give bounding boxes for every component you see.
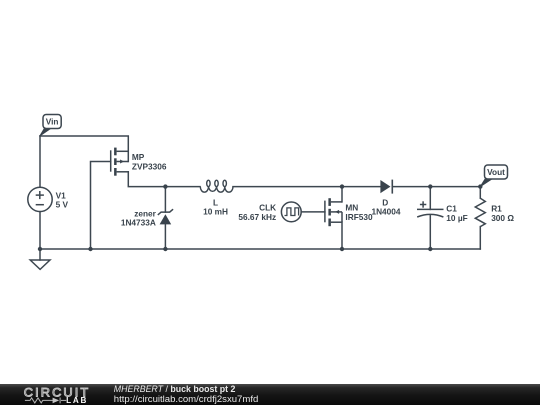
svg-text:IRF530: IRF530 (345, 212, 373, 222)
label zener value (121, 218, 156, 228)
wire ground stem (39, 249, 41, 260)
node Vin flag (40, 115, 61, 136)
inductor L (200, 180, 233, 192)
wire zener bottom stub (164, 224, 166, 249)
wire C1 bottom stub (429, 216, 431, 249)
logo diode symbol (53, 398, 60, 404)
diode D 1N4004 (380, 180, 392, 194)
label L value (203, 207, 228, 217)
footer bar (0, 384, 540, 405)
wire V1 top (39, 136, 41, 187)
label MP name (132, 152, 145, 162)
wire zener top stub (164, 187, 166, 213)
junction node C1 top (428, 184, 432, 188)
svg-text:1N4004: 1N4004 (371, 207, 400, 217)
label V1 name (56, 190, 67, 200)
wire R1 bottom stub (479, 227, 481, 249)
label CLK value (238, 212, 276, 222)
label C1 value (446, 213, 467, 223)
wire top rail Vin to MP source (40, 136, 128, 162)
label C1 name (446, 204, 457, 214)
svg-text:10 mH: 10 mH (203, 207, 228, 217)
capacitor C1 (417, 201, 444, 217)
wire bottom ground rail (40, 248, 480, 250)
label MN value (345, 212, 373, 222)
transistor MN (NMOS IRF530) (325, 198, 342, 226)
svg-text:MP: MP (132, 152, 145, 162)
wire diode D cathode to Vout node (392, 186, 480, 188)
svg-text:300 Ω: 300 Ω (491, 213, 514, 223)
wire MN drain stub (341, 187, 343, 202)
wire R1 top stub (479, 187, 481, 199)
diode zener 1N4733A (158, 209, 173, 224)
svg-text:ZVP3306: ZVP3306 (132, 162, 167, 172)
svg-text:LAB: LAB (66, 396, 88, 405)
transistor MP (PMOS ZVP3306) (111, 148, 129, 176)
wire MP gate to ground rail (91, 162, 111, 250)
label zener name (134, 208, 156, 218)
label MP value (132, 162, 167, 172)
label L name (213, 198, 218, 208)
label CLK name (259, 203, 276, 213)
wire V1 bottom (39, 212, 41, 249)
junction node zener anode at rail (163, 247, 167, 251)
wire MN source to ground rail (341, 222, 343, 249)
wire CLK output to MN gate (301, 211, 325, 213)
svg-text:Vout: Vout (487, 167, 505, 177)
svg-text:10 µF: 10 µF (446, 213, 467, 223)
clock source CLK (281, 202, 301, 222)
resistor R1 (475, 198, 485, 226)
label R1 name (491, 204, 502, 214)
label R1 value (491, 213, 514, 223)
junction node MN drain (340, 184, 344, 188)
junction node C1 bottom at rail (428, 247, 432, 251)
svg-text:56.67 kHz: 56.67 kHz (238, 212, 276, 222)
svg-text:MHERBERT / buck boost pt 2: MHERBERT / buck boost pt 2 (114, 384, 236, 394)
label MN name (345, 203, 358, 213)
wire inductor L to diode D anode (233, 186, 380, 188)
logo CIRCUIT text (24, 385, 91, 399)
junction node MP drain / zener (163, 184, 167, 188)
footer title text (114, 384, 236, 394)
junction node V1 minus / ground (38, 247, 42, 251)
voltage source V1 (28, 187, 52, 211)
label V1 value (56, 200, 69, 210)
ground (30, 260, 50, 269)
junction node MN source at rail (340, 247, 344, 251)
logo LAB text (66, 396, 88, 405)
junction node Vout / R1 top (478, 184, 482, 188)
label D name (382, 197, 388, 207)
svg-text:http://circuitlab.com/crdfj2sx: http://circuitlab.com/crdfj2sxu7mfd (114, 394, 258, 404)
label D value (371, 207, 400, 217)
node Vout flag (480, 165, 507, 187)
footer url text (114, 394, 258, 404)
svg-text:Vin: Vin (46, 117, 59, 127)
junction node MP gate at rail (88, 247, 92, 251)
wire MP drain to inductor L (128, 172, 200, 187)
svg-text:1N4733A: 1N4733A (121, 218, 156, 228)
svg-text:5 V: 5 V (56, 200, 69, 210)
wire C1 top stub (429, 187, 431, 210)
logo resistor and diode motif (25, 398, 66, 404)
